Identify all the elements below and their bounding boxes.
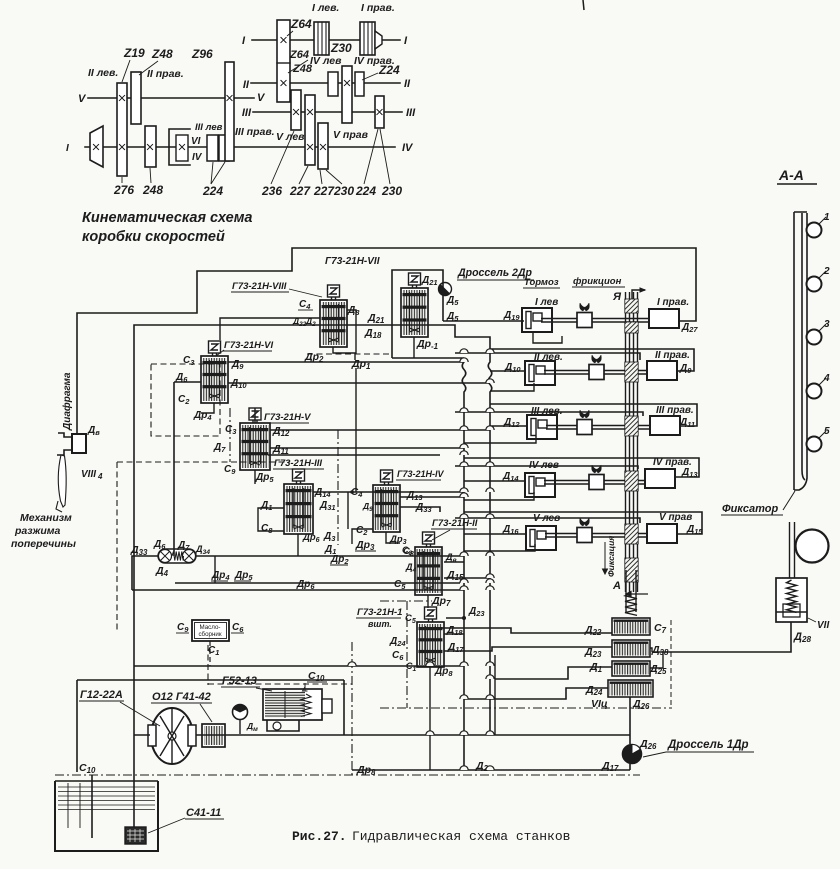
svg-text:коробки скоростей: коробки скоростей (82, 229, 225, 245)
svg-text:1: 1 (824, 212, 830, 223)
maslosbornik (oil collector) (192, 620, 229, 641)
svg-text:230: 230 (381, 184, 402, 198)
fixator spring block VII (776, 578, 807, 622)
svg-text:248: 248 (142, 183, 163, 197)
node 5 on fixator bar (807, 437, 822, 452)
fixator roller (big circle) (796, 530, 829, 563)
wire Др-1 valve bottom (413, 337, 415, 358)
shifter block row I (577, 313, 592, 328)
wire VIII valve down (333, 347, 355, 360)
svg-text:Тормоз: Тормоз (524, 277, 559, 288)
svg-text:III: III (406, 107, 416, 119)
shaft II (251, 82, 400, 84)
pressure gauge (233, 705, 248, 720)
svg-text:I лев.: I лев. (312, 2, 339, 14)
svg-text:II: II (243, 79, 250, 91)
svg-text:Г73-21Н-III: Г73-21Н-III (274, 458, 322, 469)
svg-text:Z96: Z96 (191, 47, 213, 61)
gear z48 pair upper (131, 72, 141, 124)
valve Г73-21Н-III (У3) (284, 469, 313, 534)
svg-text:IV прав.: IV прав. (354, 55, 395, 67)
wire row IV bus (464, 458, 699, 477)
wire Дв stub (444, 561, 464, 563)
gear Z64 tall right (277, 20, 290, 102)
gear 248 (145, 126, 156, 167)
fixator rod (789, 522, 791, 578)
piston rod row II (544, 370, 651, 372)
wire Д22 stub row I (533, 332, 562, 343)
svg-text:Механизм: Механизм (20, 512, 72, 524)
svg-text:Z64: Z64 (290, 17, 312, 31)
svg-text:IV лев: IV лев (310, 55, 342, 67)
node 2 on fixator bar (807, 277, 822, 292)
shaft V (88, 97, 254, 99)
dash-dot below VI valve (229, 408, 231, 462)
filter О12 Г41-42 (202, 724, 225, 747)
shifter block row V (577, 528, 592, 543)
small gear pair 224 (207, 135, 218, 161)
svg-text:разжима: разжима (14, 525, 61, 537)
wire Д14 (313, 491, 464, 493)
svg-text:I прав.: I прав. (361, 2, 395, 14)
fork (yoke) row I (580, 303, 590, 311)
svg-text:II прав.: II прав. (655, 350, 690, 361)
dash-dot boundary x352 (351, 642, 353, 775)
wire return y590 (132, 589, 464, 591)
cylinder V right (647, 524, 677, 543)
gear 227/230 (318, 123, 328, 169)
stray scan tick (583, 0, 584, 10)
svg-text:4: 4 (823, 373, 830, 384)
svg-text:230: 230 (333, 184, 354, 198)
cylinder IV left (525, 473, 555, 497)
box around Др-1 (392, 270, 443, 358)
shaft III (253, 111, 402, 113)
svg-text:Г52-13: Г52-13 (222, 675, 257, 687)
cylinder V left (526, 526, 556, 550)
svg-text:III прав.: III прав. (656, 405, 694, 416)
camshaft neck to valve VIts (625, 570, 627, 612)
cylinder I left (522, 308, 552, 332)
wire row III drain stub (464, 436, 536, 443)
valve Г73-21Н-IV (У4) (373, 470, 400, 532)
node 3 on fixator bar (807, 330, 822, 345)
shaft I (252, 39, 400, 41)
clutch I lev (314, 22, 329, 55)
check valve with spring (oval) (158, 549, 196, 563)
wire long return y666 (134, 665, 464, 667)
dash-dot boundary x338 (337, 430, 339, 545)
svg-text:III прав.: III прав. (235, 126, 275, 138)
wire row III second feed (455, 412, 643, 416)
svg-text:Рис.27.: Рис.27. (292, 829, 347, 844)
cylinder IV right (645, 469, 675, 488)
svg-text:Фиксатор: Фиксатор (722, 503, 778, 515)
wire C4 connector valve IV (347, 492, 349, 529)
wire Д1 step to stack (495, 667, 612, 679)
shifter block row II (589, 365, 604, 380)
svg-text:Дроссель 1Др: Дроссель 1Др (667, 739, 749, 751)
svg-text:Дроссель 2Др: Дроссель 2Др (457, 267, 532, 279)
pipe jump bumps (348, 349, 494, 770)
gear 224 right (375, 96, 384, 128)
svg-text:фрикцион: фрикцион (573, 276, 622, 287)
dash-dot boundary x407 (406, 601, 408, 708)
svg-text:236: 236 (261, 184, 282, 198)
wire Д11 (268, 448, 464, 455)
valve Др-1 (у Дросселя 2Др) (401, 273, 428, 337)
svg-text:Г73-21Н-1: Г73-21Н-1 (357, 607, 402, 618)
wire Д18 stub (444, 633, 464, 635)
valve Г73-21Н-1 (У1) (417, 607, 444, 667)
svg-text:II прав.: II прав. (147, 68, 184, 80)
oil tank (55, 781, 158, 851)
wire row V drain stub (464, 544, 535, 551)
wire Д33 to oval (132, 556, 159, 590)
wire Д12 (270, 429, 490, 431)
wire row IV second feed (455, 466, 638, 469)
svg-text:4: 4 (97, 472, 103, 481)
wire tank pipe left (91, 775, 93, 838)
piston rod row I (541, 318, 653, 320)
wire row IV feed (464, 480, 525, 482)
wire oval check valve line (196, 555, 464, 557)
svg-text:Г12-22А: Г12-22А (80, 689, 123, 701)
svg-text:IV: IV (192, 152, 203, 163)
wire Д22 step to stack (430, 628, 612, 633)
wire Д23 step to stack (464, 647, 612, 651)
wire C1 from maslosbornik (209, 641, 211, 666)
svg-text:224: 224 (202, 184, 223, 198)
dashed frame maslosbornik (208, 645, 352, 685)
wire Др4-До5 (175, 582, 460, 584)
svg-text:I лев: I лев (535, 297, 558, 308)
wire Д38/Д28 junction (650, 648, 652, 652)
cylinder II left (525, 361, 555, 385)
wire Д19 row I feed (443, 320, 524, 322)
wire row V bus (464, 512, 702, 534)
svg-text:V прав: V прав (333, 129, 369, 141)
wire V2 bottom to V1 (427, 595, 429, 608)
camshaft (vertical) (625, 292, 627, 592)
svg-text:Я: Я (612, 291, 622, 303)
wire C4 feed to valve VI (220, 318, 320, 340)
wire drossel 1Др drop (629, 697, 631, 770)
wire Д25 from stack right (650, 652, 663, 668)
suction filter C41-11 (125, 827, 146, 844)
wire left frame box 2 (134, 325, 694, 666)
svg-text:276: 276 (113, 183, 134, 197)
wire row IV drain stub (464, 492, 534, 500)
wire V1 bottom (429, 667, 431, 770)
svg-text:Г73-21Н-V: Г73-21Н-V (264, 412, 311, 423)
wire row III bus (490, 404, 697, 426)
svg-text:227: 227 (289, 184, 311, 198)
svg-text:Г73-21Н-VII: Г73-21Н-VII (325, 256, 380, 267)
wire C2 loop valve IV (352, 529, 373, 544)
wire Д15 (444, 577, 490, 579)
wire diaphragm to top box (77, 248, 696, 434)
svg-text:VIII: VIII (81, 469, 96, 480)
gear cluster on shaft II (328, 72, 338, 96)
wire Д10 (228, 382, 490, 384)
svg-text:I прав.: I прав. (657, 297, 689, 308)
wire Др1 vertical (355, 368, 357, 492)
pump Г12-22А (148, 708, 196, 764)
svg-text:Кинематическая схема: Кинематическая схема (82, 210, 252, 226)
dashed box around Г73-21Н-VI (151, 364, 220, 436)
gear 276 (117, 83, 127, 176)
dash-dot machine boundary bottom (55, 774, 640, 776)
bus vertical x464 (462, 358, 466, 770)
wire from D28 block to stack (652, 622, 791, 652)
tall gear (225, 62, 234, 161)
cylinder III left (527, 415, 557, 439)
wire Д6 vertical (174, 382, 201, 556)
svg-text:II лев.: II лев. (88, 67, 118, 79)
node 4 on fixator bar (807, 384, 822, 399)
cylinder II right (647, 361, 677, 380)
node 1 on fixator bar (807, 223, 822, 238)
svg-text:Г73-21Н-VIII: Г73-21Н-VIII (232, 281, 287, 292)
wire row III feed (490, 425, 527, 427)
coupling VI/IV (169, 129, 190, 165)
piston rod row V (545, 533, 651, 535)
dashed frame left (117, 461, 290, 463)
wire pump box top (77, 680, 344, 772)
bus vertical x490 (488, 349, 492, 735)
svg-text:2: 2 (823, 266, 830, 277)
wire Д33 (400, 507, 440, 512)
dashed box right of stack (670, 620, 672, 707)
valve Г73-21Н-VI (У6) (201, 341, 228, 403)
svg-text:Z64: Z64 (289, 49, 309, 61)
shifter block row III (577, 420, 592, 435)
clutch I prav (360, 22, 375, 55)
svg-text:А-А: А-А (778, 167, 804, 183)
svg-text:V прав: V прав (659, 512, 692, 523)
shaft IV (lower, with bevel gear input) (85, 146, 395, 148)
diaphragm lever blade (58, 455, 66, 507)
piston rod row IV (544, 480, 649, 482)
cylinder III right (650, 416, 680, 435)
dash-dot boundary y601 (380, 600, 432, 602)
svg-text:III: III (242, 107, 252, 119)
svg-text:II: II (404, 78, 411, 90)
fork (yoke) row IV (592, 465, 602, 473)
fork (yoke) row V (580, 518, 590, 526)
piston rod row III (546, 425, 654, 427)
svg-text:вшт.: вшт. (368, 619, 392, 629)
svg-text:VI: VI (191, 136, 201, 147)
svg-text:поперечины: поперечины (11, 538, 76, 550)
svg-text:III лев: III лев (195, 122, 223, 133)
svg-text:V лев: V лев (276, 131, 305, 143)
svg-text:Г73-21Н-VI: Г73-21Н-VI (224, 340, 273, 351)
wire V3 bottom (297, 534, 299, 556)
svg-text:IV: IV (402, 142, 414, 154)
orifice symbol (dark circle) near Д21 (439, 283, 452, 296)
camshaft hatched sections (625, 299, 638, 313)
dash-dot boundary y708 (380, 707, 672, 709)
wire Д17 stub (444, 650, 464, 652)
valve Г73-21Н-V (У5) (240, 408, 270, 470)
wire row II second feed (455, 353, 640, 360)
svg-text:С41-11: С41-11 (186, 807, 221, 819)
wire row V second feed (455, 518, 640, 523)
svg-text:О12 Г41-42: О12 Г41-42 (152, 691, 211, 703)
wire V6 bottom (201, 403, 214, 413)
svg-text:224: 224 (355, 184, 376, 198)
svg-text:Z19: Z19 (123, 46, 145, 60)
svg-text:А: А (612, 580, 621, 592)
wire Др2 dashed (307, 353, 392, 355)
valve Г73-21Н-II (У2) (415, 532, 442, 595)
valve VIц (central stack) (608, 593, 653, 697)
svg-text:Фиксация: Фиксация (606, 536, 616, 577)
fixator bar A-A (794, 212, 807, 490)
svg-text:сборник: сборник (198, 631, 221, 638)
bevel gear input (90, 126, 103, 167)
wire row II feed (490, 370, 525, 372)
wire row V feed (464, 533, 526, 535)
wire bottom verticals (494, 655, 496, 735)
wire Др4 connector (214, 556, 216, 583)
svg-text:Г73-21Н-II: Г73-21Н-II (432, 518, 478, 529)
fork (yoke) row II (592, 355, 602, 363)
gear 236 (291, 90, 301, 130)
wire pump suction to tank filter (134, 735, 150, 827)
drossel 1Др (dark circle) (623, 745, 642, 764)
wire Д24 step to stack (464, 688, 608, 699)
wire Д8 down (347, 310, 356, 354)
valve Г73-21Н-VIII (У8) (320, 285, 347, 347)
wire V4 bottom (386, 532, 400, 543)
wire pressure main y735 (196, 734, 630, 736)
valve Г52-13 (263, 689, 332, 731)
wire row II drain stub (490, 383, 534, 391)
gear 227 tall (305, 95, 315, 165)
svg-text:Z48: Z48 (151, 47, 173, 61)
svg-text:227: 227 (313, 184, 335, 198)
svg-text:I: I (66, 143, 69, 154)
svg-text:Гидравлическая схема станков: Гидравлическая схема станков (352, 829, 570, 844)
svg-text:VII: VII (817, 620, 829, 631)
svg-text:Г73-21Н-IV: Г73-21Н-IV (397, 469, 445, 479)
wire Д13 (400, 496, 464, 498)
shifter block row IV (589, 475, 604, 490)
svg-text:Диафрагма: Диафрагма (61, 372, 73, 431)
wire C8 loop valve III (258, 508, 284, 531)
cylinder I right (649, 309, 679, 328)
fork (yoke) row III (580, 410, 590, 418)
svg-text:5: 5 (824, 426, 830, 437)
diaphragm valve Дв (72, 434, 86, 453)
wire V5 verticals (254, 408, 256, 484)
svg-text:Z30: Z30 (330, 41, 352, 55)
wire Д17/Д2 line y770 (352, 769, 630, 771)
svg-text:3: 3 (824, 319, 830, 330)
wire Д9 (228, 361, 464, 363)
svg-text:Масло-: Масло- (200, 624, 221, 631)
